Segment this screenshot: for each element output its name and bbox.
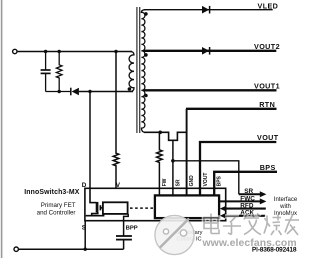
svg-text:Primary FET: Primary FET <box>41 202 76 209</box>
node: clamp resistor junction <box>58 50 61 53</box>
svg-text:SR: SR <box>175 179 181 186</box>
wire: RTN rail <box>186 108 277 110</box>
wire: drain node <box>79 91 133 93</box>
wire: secondary return bottom with notch <box>144 132 187 140</box>
IC package outline InnoSwitch3-MX <box>85 188 226 220</box>
svg-text:InnoSwitch3-MX: InnoSwitch3-MX <box>24 189 80 196</box>
transistor Q (internal primary FET) <box>86 188 104 215</box>
wire: S pin drop <box>84 221 86 250</box>
wire: VOUT1 rail <box>144 89 277 91</box>
wire: BPP pin drop <box>124 214 129 236</box>
node: clamp cap junction <box>44 50 47 53</box>
svg-text:and Controller: and Controller <box>37 210 76 217</box>
wire: BPP cap to return rail <box>123 240 125 250</box>
svg-text:with: with <box>279 204 291 210</box>
capacitor C2 (BPP) <box>116 236 132 240</box>
svg-text:RFD: RFD <box>240 203 254 210</box>
watermark circle logo <box>155 215 194 254</box>
interface line RFD with left arrow <box>226 208 266 210</box>
node: drain to D pin <box>88 90 91 93</box>
wire: SR pin riser <box>172 140 174 195</box>
svg-text:SR: SR <box>244 188 253 195</box>
wire: D pin riser <box>89 92 91 189</box>
controller block (primary controller) <box>103 202 128 214</box>
secondary polarity dot (VOUT2 section) <box>144 53 148 57</box>
svg-text:GND: GND <box>189 175 195 187</box>
interface line SR with right arrow <box>239 193 260 195</box>
wire: input rail top <box>17 51 132 53</box>
svg-text:D: D <box>82 182 87 189</box>
wire: V pin riser with resistor R2 <box>113 52 119 189</box>
transformer T1 secondary winding <box>141 10 145 133</box>
transformer core <box>136 7 138 133</box>
diode D2 (VLED) <box>202 6 210 14</box>
node: V-pin resistor junction <box>114 50 117 53</box>
svg-text:BPS: BPS <box>216 175 222 186</box>
svg-text:V: V <box>116 182 121 189</box>
node: S to return rail <box>84 248 87 251</box>
svg-text:VOUT1: VOUT1 <box>254 82 280 91</box>
svg-text:VOUT: VOUT <box>257 133 279 142</box>
page left border line <box>1 0 3 258</box>
wire: FW pin riser with resistor R3 <box>157 132 163 195</box>
svg-text:FWC: FWC <box>240 195 255 202</box>
node: resistor to clamp bottom <box>58 90 61 93</box>
input terminal (bottom) <box>14 247 18 251</box>
transformer primary polarity dot <box>128 87 132 91</box>
diode D3 (VOUT2) <box>202 47 210 55</box>
node: SR net junction <box>171 159 175 163</box>
svg-text:BPP: BPP <box>126 226 138 232</box>
capacitor C1 (clamp) <box>41 52 51 92</box>
wire: VOUT riser <box>200 142 276 195</box>
svg-text:RTN: RTN <box>259 100 275 109</box>
node: FW junction on return <box>158 131 162 135</box>
svg-text:VLED: VLED <box>258 1 279 10</box>
interface line ACK with left arrow <box>226 215 265 217</box>
secondary control IC box <box>155 195 219 218</box>
wire: VLED rail <box>144 9 273 11</box>
wire: VOUT2 rail <box>144 50 277 52</box>
secondary polarity dot (VOUT1 section) <box>144 94 148 98</box>
wire: BPS riser <box>214 172 277 196</box>
wire: input return rail <box>18 248 123 250</box>
svg-text:VOUT: VOUT <box>203 173 209 187</box>
wire: clamp bottom <box>46 91 71 93</box>
svg-text:VOUT2: VOUT2 <box>254 42 280 51</box>
resistor R1 (clamp) <box>56 52 62 92</box>
FluxLink dashed link <box>130 207 155 209</box>
svg-text:Interface: Interface <box>274 197 298 203</box>
wire: SR net across <box>173 161 239 194</box>
svg-text:FW: FW <box>162 178 168 186</box>
watermark chinese characters <box>204 214 299 236</box>
svg-text:BPS: BPS <box>260 163 276 172</box>
input terminal (top) <box>13 49 17 53</box>
secondary polarity dot (VLED section) <box>144 12 148 16</box>
interface line FWC with right arrow <box>219 200 260 202</box>
transformer T1 primary winding <box>129 52 134 92</box>
diode D1 (clamp, pointing left) <box>71 88 79 96</box>
svg-text:PI-8368-092418: PI-8368-092418 <box>252 247 297 254</box>
wire: GND / RTN riser <box>186 109 188 196</box>
